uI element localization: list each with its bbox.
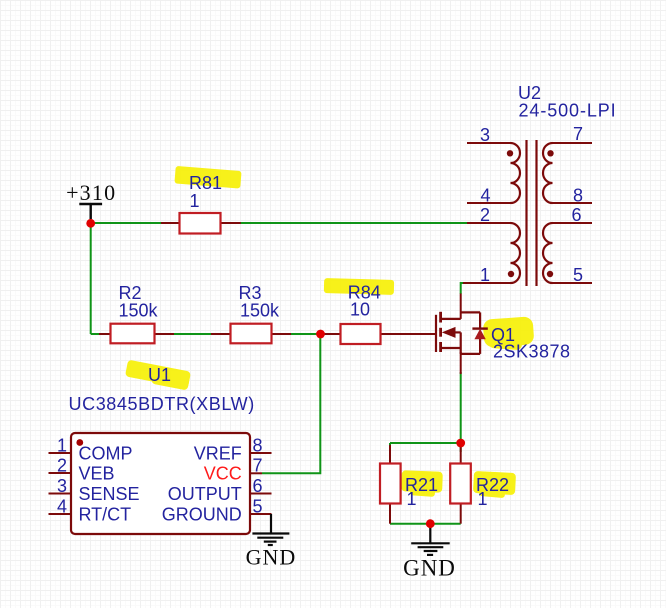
svg-text:VEB: VEB bbox=[79, 464, 115, 484]
svg-text:1: 1 bbox=[57, 436, 67, 456]
svg-text:1: 1 bbox=[190, 191, 200, 211]
svg-text:2: 2 bbox=[57, 456, 67, 476]
svg-text:4: 4 bbox=[57, 497, 67, 517]
svg-text:3: 3 bbox=[480, 125, 490, 145]
svg-text:5: 5 bbox=[573, 265, 583, 285]
svg-text:COMP: COMP bbox=[79, 444, 133, 464]
svg-text:1: 1 bbox=[478, 489, 488, 509]
svg-text:7: 7 bbox=[573, 124, 583, 144]
svg-text:RT/CT: RT/CT bbox=[79, 505, 132, 525]
svg-text:1: 1 bbox=[407, 489, 417, 509]
svg-text:150k: 150k bbox=[240, 301, 280, 321]
svg-text:GND: GND bbox=[246, 545, 297, 570]
svg-text:7: 7 bbox=[253, 456, 263, 476]
svg-text:GROUND: GROUND bbox=[162, 505, 242, 525]
svg-text:UC3845BDTR(XBLW): UC3845BDTR(XBLW) bbox=[69, 394, 255, 414]
svg-text:24-500-LPI: 24-500-LPI bbox=[519, 101, 617, 121]
svg-text:4: 4 bbox=[480, 186, 490, 206]
svg-text:2: 2 bbox=[480, 205, 490, 225]
svg-text:10: 10 bbox=[350, 300, 370, 320]
svg-text:8: 8 bbox=[253, 436, 263, 456]
svg-text:VREF: VREF bbox=[194, 444, 242, 464]
svg-text:OUTPUT: OUTPUT bbox=[168, 484, 242, 504]
svg-text:GND: GND bbox=[403, 556, 456, 581]
svg-text:6: 6 bbox=[253, 476, 263, 496]
svg-text:5: 5 bbox=[253, 497, 263, 517]
svg-text:6: 6 bbox=[572, 205, 582, 225]
svg-text:150k: 150k bbox=[119, 301, 159, 321]
svg-text:U1: U1 bbox=[148, 365, 171, 385]
svg-text:SENSE: SENSE bbox=[79, 484, 140, 504]
svg-text:3: 3 bbox=[57, 476, 67, 496]
svg-text:8: 8 bbox=[573, 186, 583, 206]
svg-text:1: 1 bbox=[480, 265, 490, 285]
svg-text:VCC: VCC bbox=[204, 464, 242, 484]
svg-text:R81: R81 bbox=[189, 173, 222, 193]
svg-text:+310: +310 bbox=[66, 180, 116, 205]
svg-text:2SK3878: 2SK3878 bbox=[493, 342, 571, 362]
